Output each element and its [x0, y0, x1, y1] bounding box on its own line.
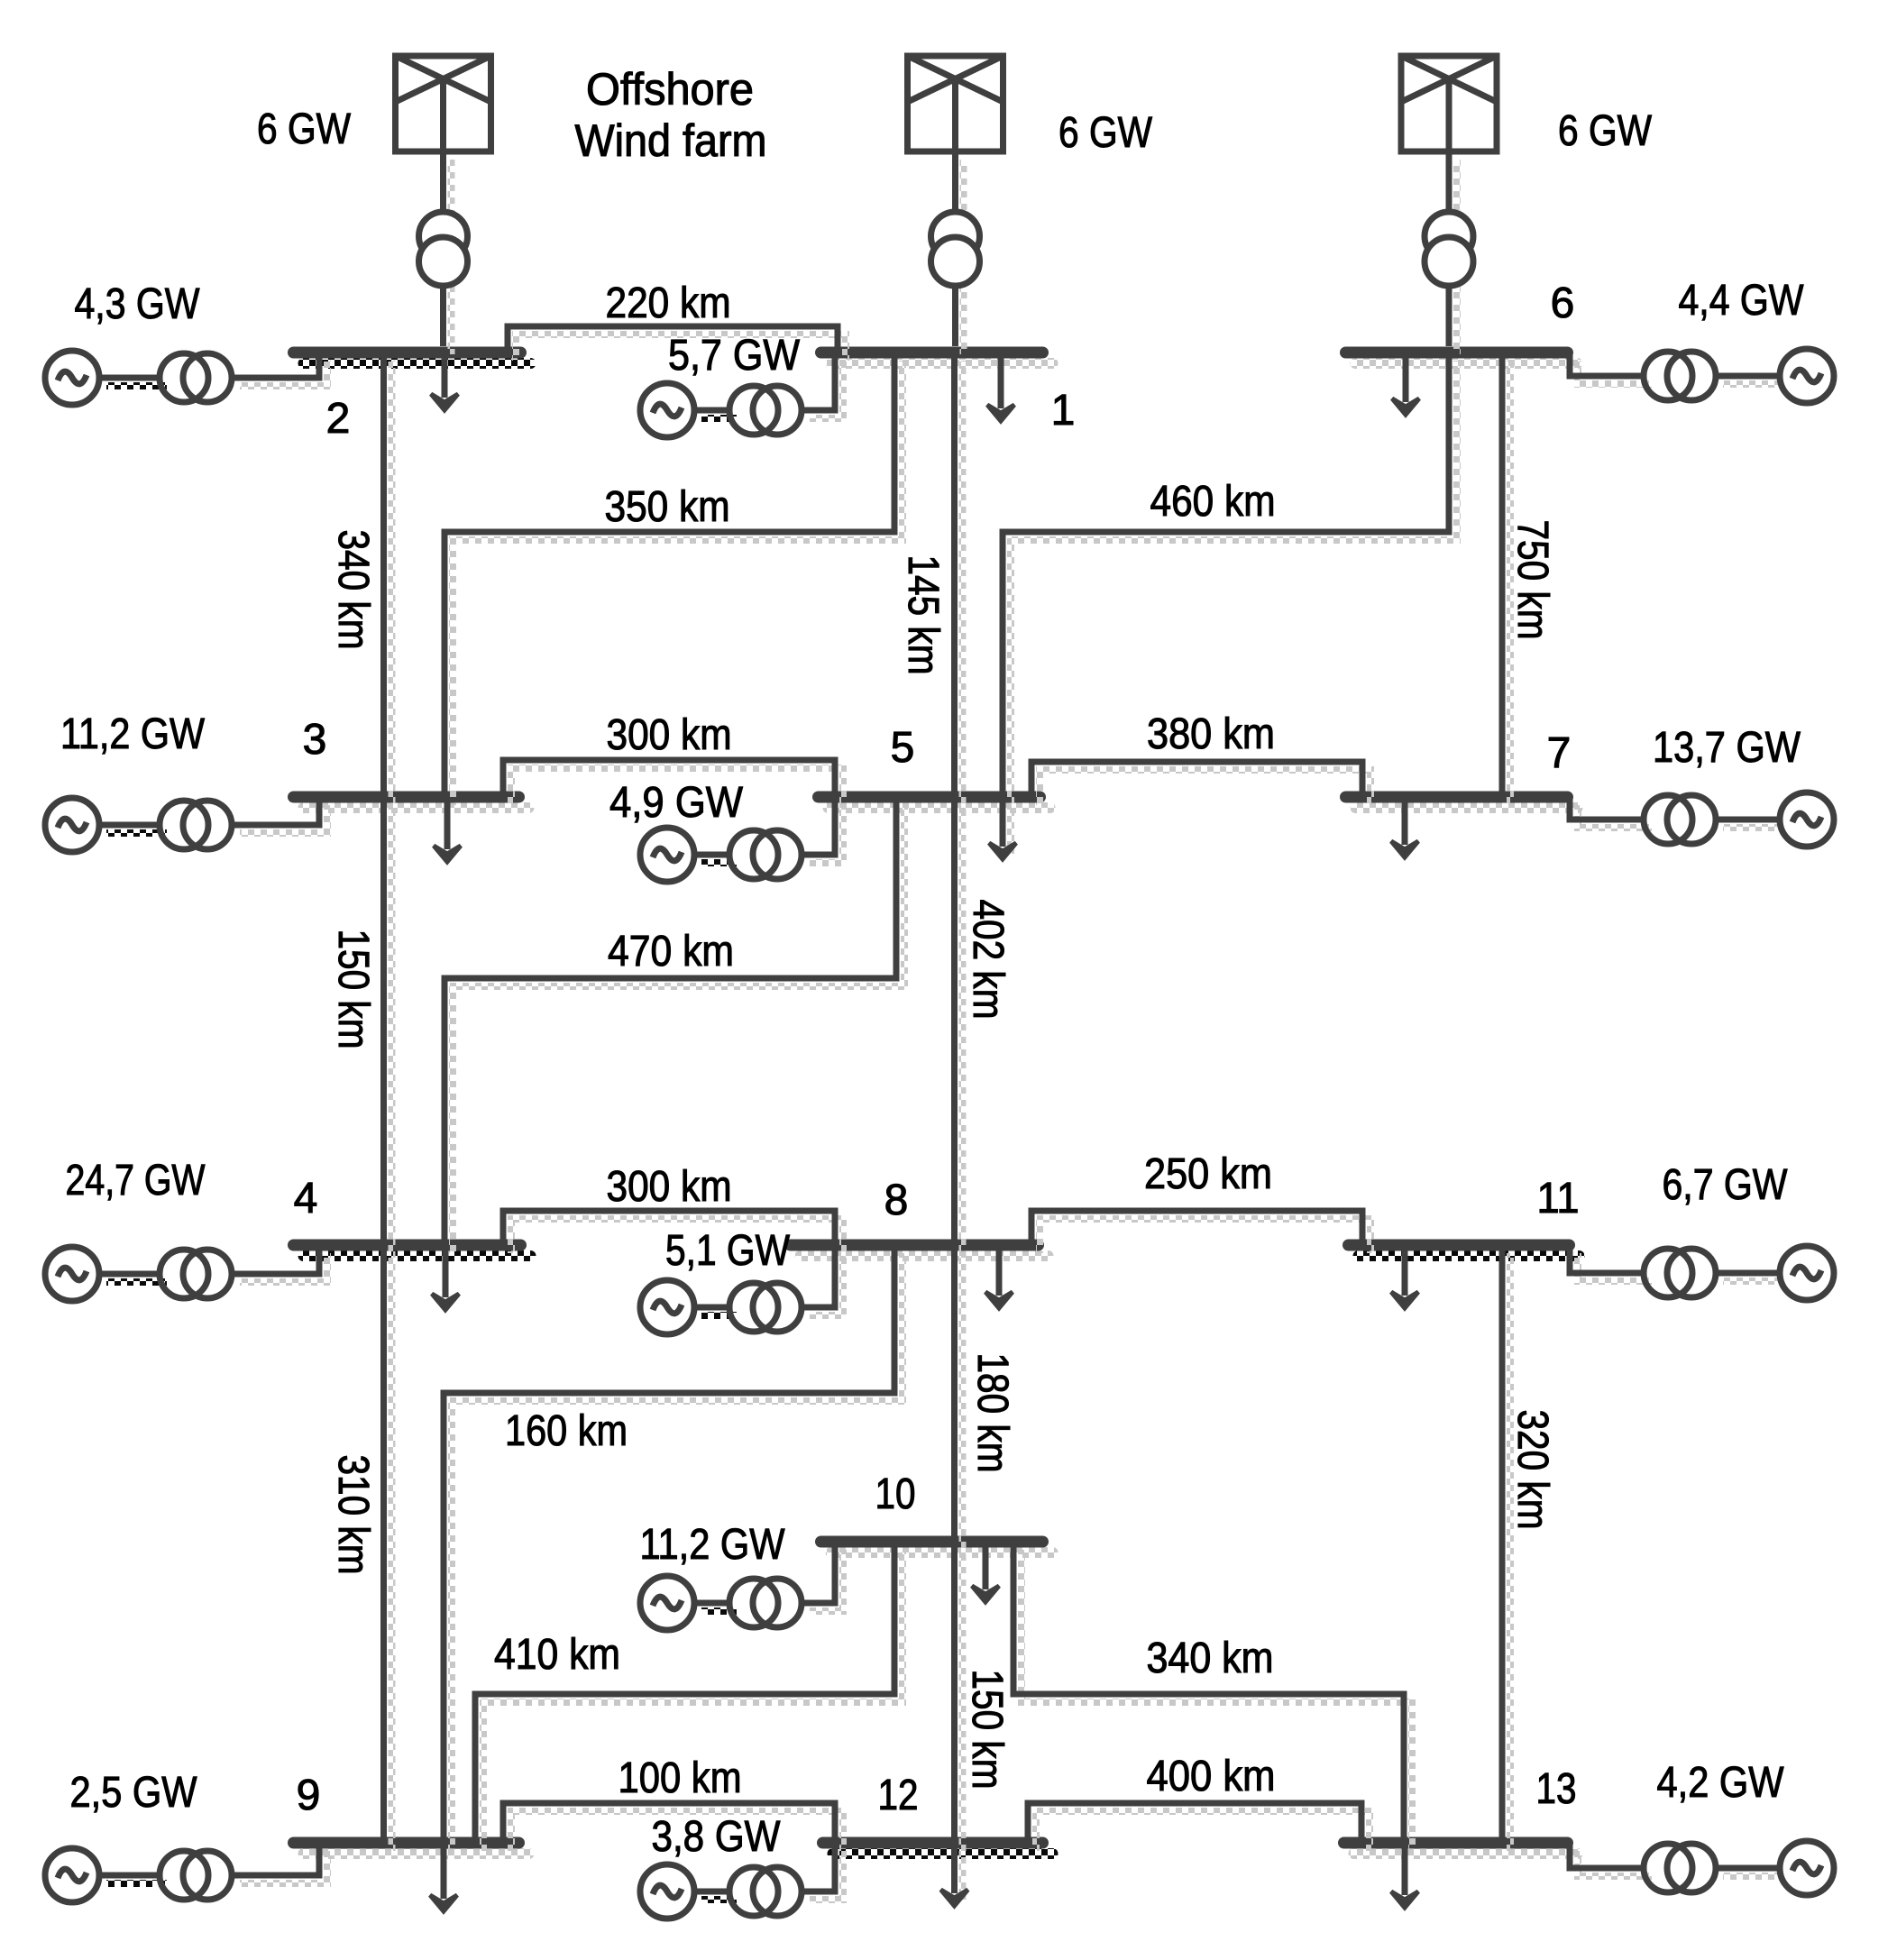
bus 3	[294, 797, 529, 808]
load bus 10	[972, 1542, 999, 1602]
svg-text:6 GW: 6 GW	[1558, 107, 1653, 155]
svg-text:145 km: 145 km	[899, 555, 947, 675]
generator G2 (4,3 GW) with transformer, bus 2	[45, 351, 327, 405]
wire line 4-8 (300 km)	[503, 1211, 843, 1253]
svg-text:12: 12	[878, 1772, 919, 1819]
wire line 11-13 (320 km)	[1502, 1245, 1510, 1851]
bus 11	[1349, 1245, 1580, 1256]
svg-text:2: 2	[326, 395, 351, 443]
wire line 9-8 (160 km)	[444, 1245, 903, 1851]
generator G11 (6,7 GW) with transformer, bus 11	[1570, 1245, 1834, 1300]
generator G8 (5,1 GW) with transformer, bus 8	[640, 1245, 843, 1334]
svg-text:100 km: 100 km	[619, 1754, 742, 1802]
generator G10 (11,2 GW) with transformer, bus 10	[640, 1542, 843, 1630]
svg-text:3: 3	[303, 716, 327, 764]
svg-text:2,5 GW: 2,5 GW	[70, 1769, 198, 1817]
svg-text:5,1 GW: 5,1 GW	[665, 1227, 791, 1275]
generator G4 (24,7 GW) with transformer, bus 4	[45, 1245, 327, 1301]
svg-text:Wind farm: Wind farm	[575, 115, 767, 166]
load bus 6	[1392, 353, 1419, 415]
wire line 9-10 (410 km)	[475, 1542, 903, 1851]
bus 4	[294, 1245, 531, 1256]
generator G12 (3,8 GW) with transformer, bus 12	[640, 1843, 843, 1919]
load bus 8	[985, 1245, 1013, 1308]
load bus 1	[987, 353, 1014, 421]
bus 13	[1344, 1843, 1578, 1854]
svg-text:5: 5	[891, 724, 915, 772]
svg-text:5,7 GW: 5,7 GW	[668, 332, 801, 380]
svg-text:24,7 GW: 24,7 GW	[66, 1157, 206, 1204]
svg-text:300 km: 300 km	[607, 1163, 732, 1211]
generator G1 (5,7 GW) with transformer, bus 1	[640, 353, 843, 437]
svg-text:1: 1	[1051, 387, 1076, 435]
load bus 11	[1391, 1245, 1418, 1308]
generator G9 (2,5 GW) with transformer, bus 9	[45, 1843, 327, 1902]
svg-text:7: 7	[1547, 729, 1572, 777]
svg-text:410 km: 410 km	[494, 1631, 620, 1679]
svg-text:400 km: 400 km	[1147, 1753, 1276, 1800]
svg-text:150 km: 150 km	[329, 930, 377, 1049]
svg-text:750 km: 750 km	[1508, 520, 1556, 640]
bus 7	[1346, 797, 1578, 808]
wire line 3-1 (350 km)	[444, 353, 903, 805]
svg-text:4: 4	[294, 1175, 318, 1223]
generator G3 (11,2 GW) with transformer, bus 3	[45, 797, 327, 852]
wire line 3-5 (300 km)	[503, 760, 843, 805]
svg-text:8: 8	[884, 1177, 909, 1224]
wire line 6-7 (750 km)	[1502, 353, 1510, 805]
bus 6	[1346, 353, 1578, 363]
svg-text:9: 9	[297, 1772, 321, 1819]
load bus 2	[431, 353, 458, 410]
load bus 13	[1391, 1843, 1418, 1908]
wire line 4-5 (470 km)	[444, 797, 904, 1253]
load bus 4	[432, 1245, 459, 1310]
wind farm 2 (6 GW) with transformer, to bus 1	[908, 56, 1003, 354]
svg-text:11: 11	[1537, 1175, 1580, 1223]
svg-text:310 km: 310 km	[329, 1455, 377, 1575]
load bus 5	[989, 797, 1016, 859]
wire line 2-1 (220 km)	[508, 326, 846, 361]
bus 12	[823, 1843, 1053, 1854]
svg-text:350 km: 350 km	[605, 483, 730, 531]
svg-text:6 GW: 6 GW	[257, 105, 352, 153]
svg-text:470 km: 470 km	[608, 928, 734, 975]
svg-text:300 km: 300 km	[607, 711, 732, 759]
load bus 12	[941, 1843, 968, 1906]
svg-text:6 GW: 6 GW	[1058, 109, 1153, 157]
svg-text:160 km: 160 km	[505, 1407, 628, 1455]
bus 1	[821, 353, 1053, 363]
wire line 5-7 (380 km)	[1031, 762, 1370, 805]
svg-text:Offshore: Offshore	[586, 64, 754, 114]
svg-text:6,7 GW: 6,7 GW	[1663, 1161, 1789, 1209]
wire line 8-11 (250 km)	[1031, 1211, 1370, 1253]
svg-text:402 km: 402 km	[964, 900, 1012, 1020]
wire line 2-3-4-9 (340/150/310 km)	[384, 353, 392, 1851]
svg-text:460 km: 460 km	[1150, 478, 1276, 526]
svg-text:6: 6	[1551, 279, 1575, 327]
svg-text:250 km: 250 km	[1144, 1150, 1272, 1198]
svg-text:380 km: 380 km	[1147, 710, 1275, 758]
svg-text:340 km: 340 km	[1147, 1635, 1274, 1682]
svg-text:4,2 GW: 4,2 GW	[1657, 1759, 1785, 1807]
load bus 3	[434, 797, 461, 862]
wind farm 1 (6 GW) with transformer, to bus 2	[396, 56, 491, 354]
svg-text:4,4 GW: 4,4 GW	[1679, 277, 1805, 325]
wind farm 3 (6 GW) with transformer, to bus 6	[1401, 56, 1497, 354]
svg-text:3,8 GW: 3,8 GW	[652, 1813, 782, 1861]
bus 9	[294, 1843, 529, 1854]
svg-text:220 km: 220 km	[606, 279, 731, 327]
wire line 1-5-8-10-12 (145/402/180/150 km)	[955, 353, 963, 1900]
svg-text:13: 13	[1536, 1765, 1577, 1813]
svg-text:180 km: 180 km	[968, 1353, 1016, 1473]
svg-text:150 km: 150 km	[963, 1670, 1011, 1790]
wire line 10-13 (340 km)	[1013, 1542, 1412, 1851]
bus 2	[294, 353, 531, 363]
load bus 7	[1391, 797, 1418, 857]
wire line 12-13 (400 km)	[1028, 1803, 1370, 1851]
load bus 9	[430, 1843, 457, 1911]
wire line 9-12 (100 km)	[503, 1803, 843, 1900]
svg-text:11,2 GW: 11,2 GW	[640, 1521, 786, 1569]
generator G13 (4,2 GW) with transformer, bus 13	[1570, 1841, 1834, 1895]
generator G5 (4,9 GW) with transformer, bus 5	[640, 797, 843, 882]
bus 5	[819, 797, 1050, 808]
svg-text:13,7 GW: 13,7 GW	[1653, 724, 1801, 772]
svg-text:10: 10	[875, 1470, 916, 1518]
svg-text:340 km: 340 km	[329, 530, 377, 650]
svg-text:320 km: 320 km	[1508, 1410, 1556, 1530]
svg-text:11,2 GW: 11,2 GW	[60, 710, 206, 758]
generator G7 (13,7 GW) with transformer, bus 7	[1570, 792, 1834, 847]
wire line 5-6 (460 km)	[1003, 353, 1457, 854]
generator G6 (4,4 GW) with transformer, bus 6	[1570, 349, 1834, 403]
svg-text:4,3 GW: 4,3 GW	[75, 280, 201, 328]
bus 8	[791, 1245, 1049, 1256]
bus 10	[821, 1542, 1053, 1552]
svg-text:4,9 GW: 4,9 GW	[609, 779, 744, 827]
